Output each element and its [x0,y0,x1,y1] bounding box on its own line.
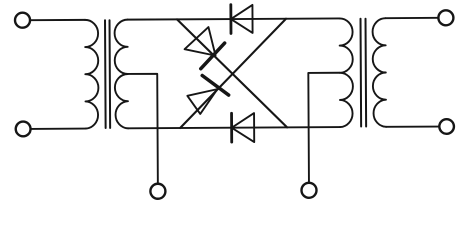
diode D2 (on diagonal A, pointing down-right) [184,27,224,69]
wire: diagonal B (bottom-left to top-right) [180,19,287,128]
terminal circle center-right (tap) [301,183,316,198]
terminal circle bottom-left [16,121,31,136]
wire: top-left lead [30,19,85,21]
wire: diagonal A (top-left to bottom-right) [177,19,287,128]
diode D1 (top rail, pointing left) [231,5,253,34]
wire: top rail [128,18,340,19]
wire: bottom-right lead [386,126,439,128]
wire: T2 primary center tap [308,73,340,183]
wire: bottom rail [128,127,340,128]
transformer T2 primary winding [340,18,354,127]
diode D3 (on diagonal B, pointing up-right) [187,75,229,114]
diode D4 (bottom rail, pointing left) [232,113,255,142]
transformer T1 secondary winding [115,20,129,129]
wire: bottom-left lead [31,128,86,130]
terminal circle top-right [438,10,453,25]
wire: top-right lead [386,17,439,19]
terminal circle top-left [15,13,30,28]
wire: T1 secondary center tap [128,74,158,184]
terminal circle bottom-right [439,119,454,134]
transformer T2 secondary winding [373,18,387,127]
terminal circle center-left (tap) [150,184,165,199]
transformer T1 core [105,20,110,128]
transformer T2 core [361,19,367,127]
transformer T1 primary winding [85,20,99,129]
